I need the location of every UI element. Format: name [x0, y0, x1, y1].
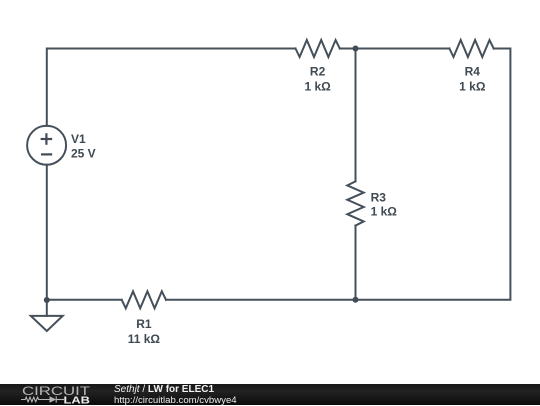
svg-text:R2: R2	[310, 65, 326, 79]
svg-text:1 kΩ: 1 kΩ	[304, 80, 331, 94]
svg-text:1 kΩ: 1 kΩ	[459, 80, 486, 94]
svg-text:LAB: LAB	[64, 395, 91, 405]
svg-text:R1: R1	[136, 317, 152, 331]
svg-text:R3: R3	[371, 191, 387, 205]
svg-text:11 kΩ: 11 kΩ	[128, 332, 161, 346]
svg-text:R4: R4	[465, 65, 481, 79]
svg-text:1 kΩ: 1 kΩ	[371, 205, 398, 219]
